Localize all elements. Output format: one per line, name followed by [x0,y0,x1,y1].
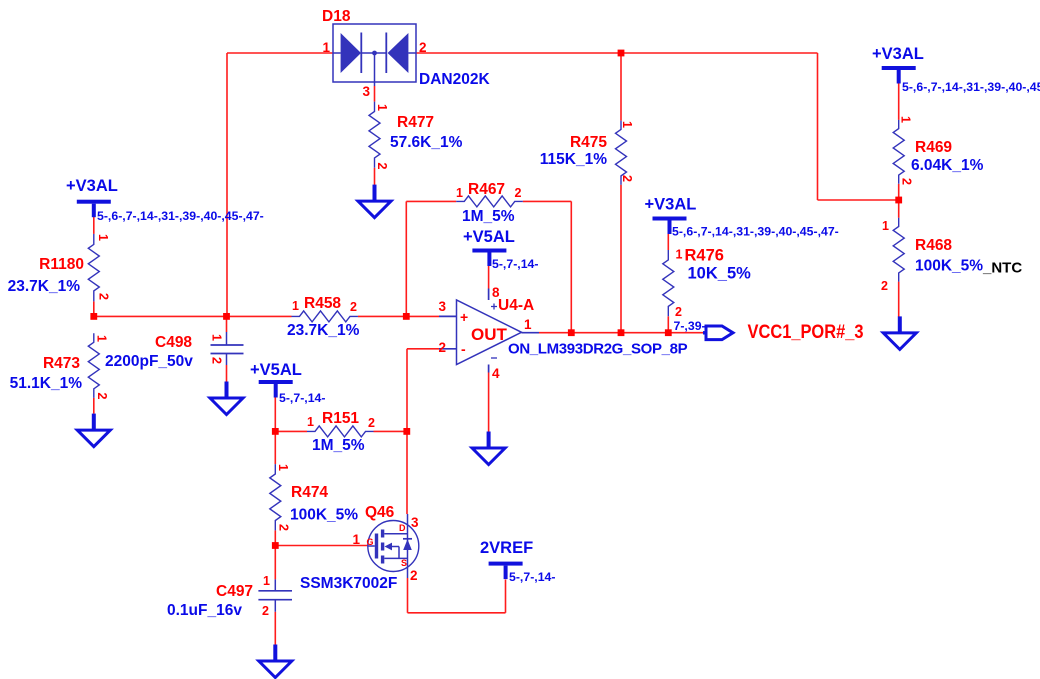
wire U4 output to port [539,332,704,334]
wire R477 to ground [374,168,376,185]
svg-text:1: 1 [882,219,889,233]
svg-text:2: 2 [881,279,888,293]
power symbol +V3AL left [77,200,111,218]
power symbol 2VREF [489,562,523,580]
junction top net [618,50,625,57]
wire R473 to ground [93,398,95,414]
svg-text:R469: R469 [915,139,952,156]
svg-text:R1180: R1180 [39,256,84,273]
wire U4 pin4 to ground [488,373,490,432]
svg-text:2: 2 [438,340,446,355]
wire Q46 source down [407,578,409,613]
wire up to 2VREF [505,580,507,613]
ground C498 gnd [210,382,243,415]
svg-text:G: G [367,537,374,547]
svg-text:1: 1 [307,415,314,429]
wire R1180 to R473 node [93,301,95,316]
ground U4 pin4 gnd [472,432,505,465]
svg-text:+: + [460,309,468,325]
svg-text:23.7K_1%: 23.7K_1% [8,278,81,295]
svg-text:2: 2 [350,300,357,314]
wire +V3AL to R1180 [93,217,95,234]
svg-text:R476: R476 [685,247,724,265]
svg-text:R467: R467 [468,181,505,198]
resistor R151 [307,426,374,437]
svg-text:R473: R473 [43,355,80,372]
svg-text:-: - [461,341,466,357]
wire D18 pin2 to top-right corner [416,52,818,54]
svg-text:1: 1 [375,104,389,111]
wire gate node to Q46 gate [275,545,368,547]
junction R469/R468 node [895,197,902,204]
ground R473 gnd [77,414,110,447]
capacitor C498 [211,332,244,365]
svg-text:10K_5%: 10K_5% [688,265,752,283]
wire C498 to ground [226,365,228,382]
resistor R477 [369,102,380,168]
svg-text:1: 1 [456,186,463,200]
svg-text:R151: R151 [322,410,359,427]
svg-text:57.6K_1%: 57.6K_1% [390,134,463,151]
diode D18 DAN202K [333,24,416,86]
svg-text:115K_1%: 115K_1% [540,151,607,168]
resistor R1180 [88,234,99,302]
svg-text:5-,7-,14-: 5-,7-,14- [509,570,555,584]
svg-text:2: 2 [95,393,109,400]
wire C497 to ground [274,612,276,645]
wire pin2 stub wire [407,348,439,350]
svg-text:R475: R475 [570,134,607,151]
wire node to R151 [275,430,307,432]
svg-text:+V3AL: +V3AL [66,177,118,195]
svg-text:4: 4 [492,366,500,381]
svg-text:2200pF_50v: 2200pF_50v [105,353,193,370]
junction R151 right node [403,428,410,435]
wire D18 pin3 to R477 [374,86,376,102]
wire source to 2VREF horizontal [408,612,506,614]
capacitor C497 [258,579,292,611]
svg-text:+V3AL: +V3AL [872,45,924,63]
wire R474 to gate node [274,530,276,545]
junction gate node [272,542,279,549]
svg-text:2: 2 [262,604,269,618]
resistor R473 [88,333,99,398]
svg-text:2: 2 [675,305,682,319]
power symbol +V5AL mid [472,249,506,267]
svg-text:DAN202K: DAN202K [419,71,490,88]
svg-text:D18: D18 [322,8,351,25]
wire R476 to output net [667,316,669,332]
transistor Q46 SSM3K7002F [368,514,419,578]
svg-text:1: 1 [322,40,330,55]
wire top-right vertical [817,53,819,200]
svg-text:2: 2 [368,416,375,430]
svg-text:8: 8 [492,285,500,300]
svg-text:1M_5%: 1M_5% [312,437,365,454]
svg-text:6.04K_1%: 6.04K_1% [911,157,984,174]
svg-text:R458: R458 [304,295,341,312]
svg-text:OUT: OUT [471,325,508,344]
resistor R474 [270,464,281,530]
wire +V5AL to R151 node [274,396,276,431]
power symbol +V3AL mid [653,217,687,235]
svg-text:5-,7-,14-: 5-,7-,14- [279,391,325,405]
svg-text:S: S [401,558,407,568]
svg-text:Q46: Q46 [365,504,395,521]
svg-text:C498: C498 [155,334,192,351]
svg-text:2VREF: 2VREF [480,539,533,557]
wire R151 to minus net [374,430,408,432]
svg-text:1: 1 [292,299,299,313]
svg-text:1: 1 [524,317,532,332]
resistor R468 [893,218,904,282]
junction R151 left node [272,428,279,435]
svg-text:2: 2 [97,293,111,300]
wire R468 to ground [898,282,900,317]
wire R467 to output net [570,201,572,332]
svg-text:51.1K_1%: 51.1K_1% [10,375,83,392]
svg-text:+V3AL: +V3AL [645,196,697,214]
svg-text:2: 2 [210,357,224,364]
svg-text:1: 1 [620,121,634,128]
wire gate node to C497 [274,546,276,580]
svg-text:ON_LM393DR2G_SOP_8P: ON_LM393DR2G_SOP_8P [508,341,688,358]
svg-text:2: 2 [620,175,634,182]
wire node to R458 [94,315,292,317]
svg-text:1: 1 [210,334,224,341]
power symbol +V5AL left [259,380,293,398]
wire to R469/R468 node [818,199,899,201]
svg-text:R474: R474 [291,484,328,501]
svg-text:1: 1 [352,532,360,547]
svg-text:2: 2 [515,186,522,200]
resistor R475 [616,121,627,185]
svg-text:VCC1_POR#_3: VCC1_POR#_3 [748,322,864,343]
svg-text:C497: C497 [216,583,253,600]
svg-text:0.1uF_16v: 0.1uF_16v [167,602,242,619]
svg-text:+V5AL: +V5AL [250,361,302,379]
svg-text:1: 1 [95,335,109,342]
svg-text:7-,39-: 7-,39- [674,319,706,333]
wire +V5AL to U4 pin8 [488,258,490,289]
svg-text:2: 2 [410,568,418,583]
svg-text:D: D [399,523,406,533]
wire +V3AL to R476 [667,233,669,250]
svg-text:3: 3 [438,299,446,314]
svg-text:2: 2 [419,40,427,55]
ground R468 gnd [883,316,916,349]
svg-text:23.7K_1%: 23.7K_1% [287,322,360,339]
resistor R476 [663,250,674,316]
ground R477 gnd [358,185,391,218]
svg-text:1: 1 [276,464,290,471]
svg-text:R477: R477 [397,114,434,131]
resistor R469 [893,120,904,184]
wire R467 left lead wire [406,200,456,202]
svg-text:1: 1 [263,574,270,588]
svg-text:2: 2 [900,178,914,185]
svg-text:1: 1 [96,234,110,241]
svg-text:1M_5%: 1M_5% [462,208,515,225]
ground C497 gnd [259,645,292,678]
svg-text:100K_5%: 100K_5% [915,258,983,275]
op-amp U4-A LM393 [439,289,539,373]
junction C498 node [223,313,230,320]
wire R467 pin1 down to plus node [405,201,407,316]
svg-text:U4-A: U4-A [498,297,534,314]
svg-text:100K_5%: 100K_5% [290,507,358,524]
svg-text:2: 2 [375,163,389,170]
svg-text:SSM3K7002F: SSM3K7002F [300,575,397,592]
junction R1180/R473 node [90,313,97,320]
wire node to R474 [274,431,276,464]
svg-text:5-,6-,7-,14-,31-,39-,40-,45-,4: 5-,6-,7-,14-,31-,39-,40-,45-,47- [97,209,264,223]
svg-text:5-,6-,7-,14-,31-,39-,40-,45-,4: 5-,6-,7-,14-,31-,39-,40-,45-,47- [902,80,1040,94]
svg-text:3: 3 [362,84,370,99]
wire R458 to pin3 stub [358,315,439,317]
wire R469 to R468 [898,184,900,218]
junction output node b [618,329,625,336]
svg-text:3: 3 [411,515,419,530]
power symbol +V3AL right [882,66,916,84]
svg-text:R468: R468 [915,237,952,254]
junction plus input node [403,313,410,320]
resistor R467 [456,196,523,207]
svg-text:5-,6-,7-,14-,31-,39-,40-,45-,4: 5-,6-,7-,14-,31-,39-,40-,45-,47- [672,225,839,239]
wire left vertical net to node [226,53,228,316]
port VCC1_POR#_3 [703,326,733,340]
svg-text:5-,7-,14-: 5-,7-,14- [492,257,538,271]
resistor R458 [292,311,358,322]
wire R467 right lead wire [523,200,572,202]
wire minus input vertical to Q46 drain [406,349,408,514]
svg-text:1: 1 [899,116,913,123]
wire +V3AL to R469 [898,83,900,120]
svg-text:2: 2 [277,524,291,531]
wire R151 node stub [274,430,276,433]
wire node to C498 [226,316,228,332]
wire top node to R475 [620,53,622,121]
svg-text:_NTC: _NTC [982,260,1022,277]
wire D18 pin1 left [227,52,333,54]
junction output node c [665,329,672,336]
svg-text:1: 1 [676,248,683,262]
svg-text:+V5AL: +V5AL [463,228,515,246]
junction output node a [568,329,575,336]
wire R475 to output net [620,185,622,333]
